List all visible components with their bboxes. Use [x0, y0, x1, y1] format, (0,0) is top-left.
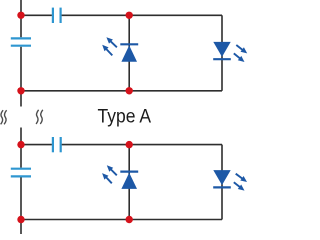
wire: top circuit left rail lower segment (C2 bottom plate through node to break): [20, 47, 22, 107]
junction node: bottom circuit bottom-middle: [126, 216, 133, 223]
LED D2 (right branch, top circuit): [213, 42, 230, 57]
junction node: bottom circuit top-left: [17, 141, 24, 148]
junction node: top circuit bottom-middle: [126, 87, 133, 94]
wire: top circuit top rail left segment (node to capacitor C1): [21, 14, 52, 16]
LED D4 cathode bar: [213, 186, 231, 188]
junction node: top circuit top-left: [17, 12, 24, 19]
capacitor C4 (left shunt capacitor, bottom circuit): [11, 169, 31, 177]
svg-text:Type A: Type A: [98, 106, 152, 127]
capacitor C3 (series coupling capacitor, bottom circuit): [53, 137, 61, 152]
wire: top circuit middle branch (node to node through LED D1): [128, 15, 130, 91]
junction node: top circuit top-middle: [126, 12, 133, 19]
wire: bottom circuit top rail right segment (C3 to right corner): [62, 144, 222, 146]
junction node: bottom circuit bottom-left: [17, 216, 24, 223]
LED D1 light emission arrows: [102, 37, 117, 55]
wire: bottom circuit right branch (top corner to bottom corner through LED D4): [221, 145, 223, 220]
LED D2 cathode bar: [213, 58, 231, 60]
LED D2 light emission arrows: [234, 45, 247, 62]
capacitor C2 (left shunt capacitor, top circuit): [11, 38, 31, 45]
wire break marks (right pair): [36, 110, 43, 124]
LED D4 (right branch, bottom circuit): [213, 170, 230, 185]
wire break marks (left pair): [1, 110, 7, 124]
wire: bottom circuit bottom rail: [21, 219, 222, 221]
LED D3 (middle branch, bottom circuit): [121, 173, 137, 189]
LED D1 (middle branch, top circuit): [121, 45, 137, 61]
wire: top circuit top rail right segment (C1 to right corner): [62, 14, 222, 16]
junction node: bottom circuit top-middle: [126, 141, 133, 148]
LED D3 light emission arrows: [102, 165, 117, 183]
wire: bottom circuit left rail lower segment (C4 bottom plate through node to bottom edge): [20, 177, 22, 234]
LED D4 light emission arrows: [234, 174, 247, 191]
wire: bottom circuit top rail left segment (node to capacitor C3): [21, 144, 52, 146]
wire: top circuit bottom rail: [21, 90, 222, 92]
LED D3 cathode bar: [120, 171, 138, 173]
LED D1 cathode bar: [120, 43, 138, 45]
junction node: top circuit bottom-left: [17, 87, 24, 94]
wire: bottom circuit left rail upper segment (break to capacitor C4 top plate): [20, 128, 22, 168]
wire: bottom circuit middle branch (node to node through LED D3): [128, 145, 130, 220]
wire: top circuit left rail upper segment (top edge to capacitor C2 top plate): [20, 0, 22, 37]
wire: top circuit right branch (top corner to bottom corner through LED D2): [221, 15, 223, 91]
capacitor C1 (series coupling capacitor, top circuit): [53, 8, 61, 23]
